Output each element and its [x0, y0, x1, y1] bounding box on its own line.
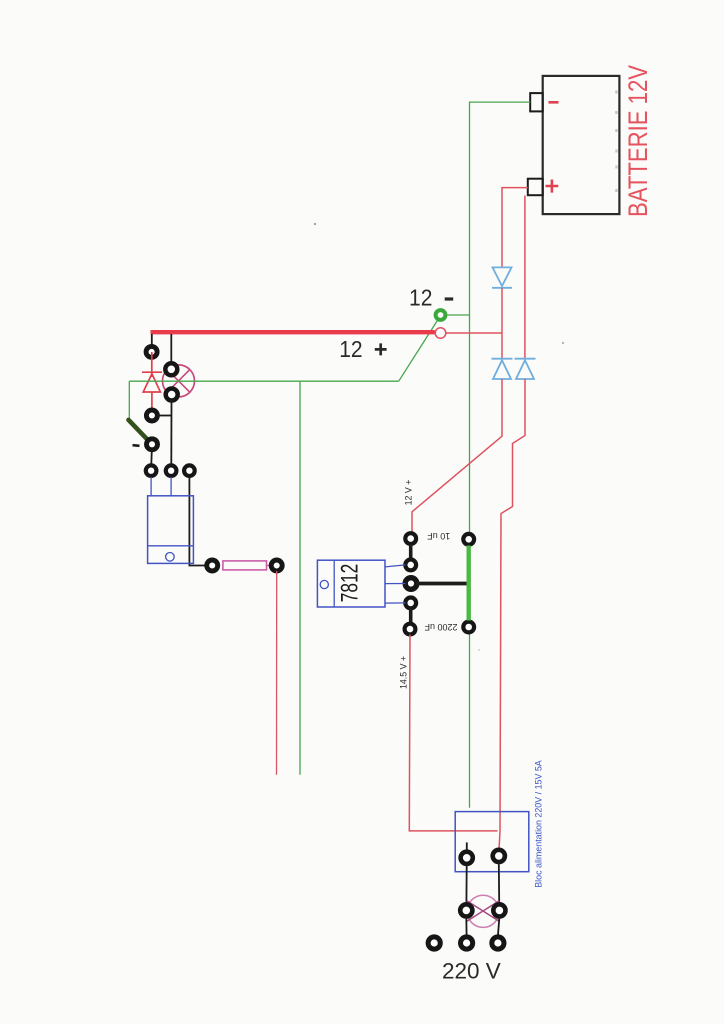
battery plus sign [546, 180, 559, 193]
battery minus sign [549, 101, 559, 104]
wire bus to lamp L1 [170, 334, 172, 362]
switch S1 lever [129, 420, 152, 444]
node pad B [146, 410, 157, 421]
node regulator pad 5 [405, 624, 416, 635]
wire D1 to D2 [501, 288, 503, 359]
wire battery plus horizontal [502, 188, 528, 268]
wire D3 down jog to transformer [499, 379, 525, 850]
node 12+ red ring [435, 328, 446, 339]
node pad row 3 [184, 465, 195, 476]
wire green diagonal [399, 321, 438, 382]
scan speck 2 [562, 342, 564, 344]
plus sign of 12+ [375, 343, 387, 355]
wire U1 pin 1 [385, 565, 406, 567]
wire 12+ bus thick red [151, 330, 435, 334]
transformer box [455, 812, 529, 872]
wire lamp bottom to pad row [170, 400, 172, 464]
lamp L2 circle [467, 895, 499, 927]
wire battery plus second [524, 196, 526, 359]
lamp L1 cross [167, 370, 190, 393]
minus sign of 12- [445, 297, 454, 300]
wire D4 to pad B [151, 392, 153, 410]
wire pad C to pad row [150, 450, 153, 464]
wire ground green horizontal [129, 380, 398, 382]
wire transformer pad2 down [498, 862, 500, 904]
battery BT1 body [543, 76, 620, 214]
wire long green vertical [299, 381, 301, 775]
wire green node to vertical [447, 314, 470, 316]
ground bar black thick [416, 582, 469, 586]
node 12- green ring [436, 310, 446, 320]
node lamp2 left pad [460, 904, 472, 916]
node lamp bottom pad [166, 389, 178, 401]
wire pad A to diode D4 [151, 352, 153, 377]
lamp L2 cross [467, 901, 499, 921]
node pad row 2 [166, 465, 177, 476]
node 220V pad left [428, 937, 440, 949]
node transformer pad 1 [461, 852, 473, 864]
svg-text:10 uF: 10 uF [427, 531, 451, 541]
resistor R1 body [223, 561, 267, 570]
battery BT1 plus terminal [528, 179, 543, 196]
node switch pad C [147, 439, 158, 450]
relay K1 box [148, 496, 194, 564]
switch S1 tick [133, 444, 140, 447]
svg-text:7812: 7812 [337, 564, 364, 603]
wire stub above transformer pad 1 [466, 842, 468, 852]
node resistor right pad [271, 560, 282, 571]
relay K1 divider [148, 545, 194, 547]
wire pad row 2 to relay [170, 477, 172, 496]
node cap right bottom pad [463, 622, 474, 633]
node transformer pad 2 [493, 850, 505, 862]
wire 14.5V+ red down [409, 635, 497, 831]
battery inner edge ticks [615, 91, 618, 193]
capacitor C1 lead [409, 544, 413, 559]
capacitor ground green bar [467, 546, 471, 621]
regulator U1 tab divider [333, 560, 335, 607]
node cap right top pad [463, 534, 474, 545]
capacitor C2 lead [409, 608, 413, 624]
svg-text:220 V: 220 V [442, 959, 501, 984]
wire pad row 3 to resistor [189, 477, 212, 566]
node regulator pad 2 [405, 560, 416, 571]
svg-text:12 V +: 12 V + [403, 480, 413, 506]
diode D1 [492, 267, 512, 287]
wire lamp2 right down [498, 917, 500, 936]
node 220V pad right [492, 937, 504, 949]
svg-text:BATTERIE 12V: BATTERIE 12V [623, 65, 653, 217]
svg-text:Bloc alimentation 220V / 15V 5: Bloc alimentation 220V / 15V 5A [534, 760, 545, 888]
node lamp2 right pad [493, 904, 505, 916]
wire resistor down red [276, 571, 278, 775]
battery BT1 minus terminal [530, 93, 543, 111]
lamp L1 circle [163, 365, 195, 397]
svg-text:12: 12 [339, 336, 362, 362]
svg-text:14.5 V +: 14.5 V + [399, 656, 409, 689]
relay K1 circle [166, 553, 175, 562]
wire pad row 1 to relay [150, 477, 152, 496]
wire bus to pad A [151, 334, 153, 346]
node resistor left pad [207, 560, 218, 571]
diode D2 [492, 359, 513, 379]
diode D3 [515, 359, 536, 379]
node regulator pad 4 [405, 598, 416, 609]
node regulator pad 1 [405, 533, 416, 544]
node pad A [146, 346, 157, 357]
node regulator pad 3 [405, 578, 417, 590]
wire lamp2 left down [465, 917, 467, 936]
wire red node to diode column [446, 332, 502, 334]
svg-text:2200 uF: 2200 uF [424, 622, 458, 632]
wire green down to switch [128, 381, 130, 418]
wire pad B to lamp column [158, 415, 172, 417]
regulator U1 tab hole [320, 580, 328, 588]
scan speck 3 [478, 649, 480, 651]
wire resistor right stub [267, 565, 272, 567]
regulator U1 7812 box [317, 560, 385, 607]
diode D4 red [142, 372, 162, 392]
node pad row 1 [146, 465, 157, 476]
scan speck 1 [314, 223, 316, 225]
wire D2 down and diagonal to 12V+ pad [412, 379, 502, 533]
wire U1 pin 3 [385, 602, 406, 604]
wire battery minus to vertical green [470, 102, 531, 808]
wire U1 pin 2 [385, 583, 406, 585]
wire transformer pad1 down [465, 864, 467, 904]
svg-text:12: 12 [409, 284, 432, 310]
node lamp top pad [165, 363, 177, 375]
node 220V pad mid [461, 937, 473, 949]
